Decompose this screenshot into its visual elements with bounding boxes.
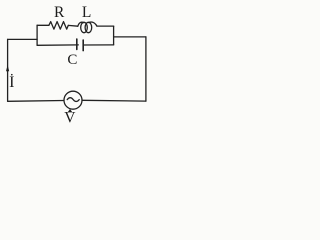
wire R to L (68, 24, 78, 27)
capacitor C right plate (82, 40, 84, 51)
current arrow I (up) on left wire (6, 65, 9, 71)
wire R lead left (37, 24, 49, 26)
wire right tap horizontal (114, 36, 146, 38)
svg-text:V: V (64, 110, 76, 127)
wire capacitor lead right (83, 44, 113, 46)
wire L to right bar (97, 25, 114, 27)
inductor L loop 2 (85, 22, 92, 32)
inductor L entry arc (78, 22, 84, 26)
wire right outer vertical (145, 37, 147, 101)
svg-text:C: C (67, 52, 77, 68)
AC source sine wave (67, 98, 79, 102)
node bar right (113, 26, 115, 45)
source arrow (up) below circle (68, 109, 73, 112)
svg-text:L: L (82, 4, 91, 21)
capacitor C left plate (76, 39, 78, 49)
svg-text:R: R (54, 4, 65, 21)
wire left outer vertical (7, 39, 9, 101)
wire bottom left (8, 100, 64, 103)
wire top-left junction horizontal (8, 38, 37, 40)
AC source V circle (64, 91, 82, 109)
wire bottom right (83, 99, 146, 102)
wire capacitor lead left (37, 44, 78, 46)
svg-text:İ: İ (9, 73, 14, 91)
inductor L loop 1 (81, 22, 88, 32)
inductor L exit arc (89, 22, 97, 26)
resistor R (49, 22, 68, 30)
node bar left (36, 25, 38, 45)
